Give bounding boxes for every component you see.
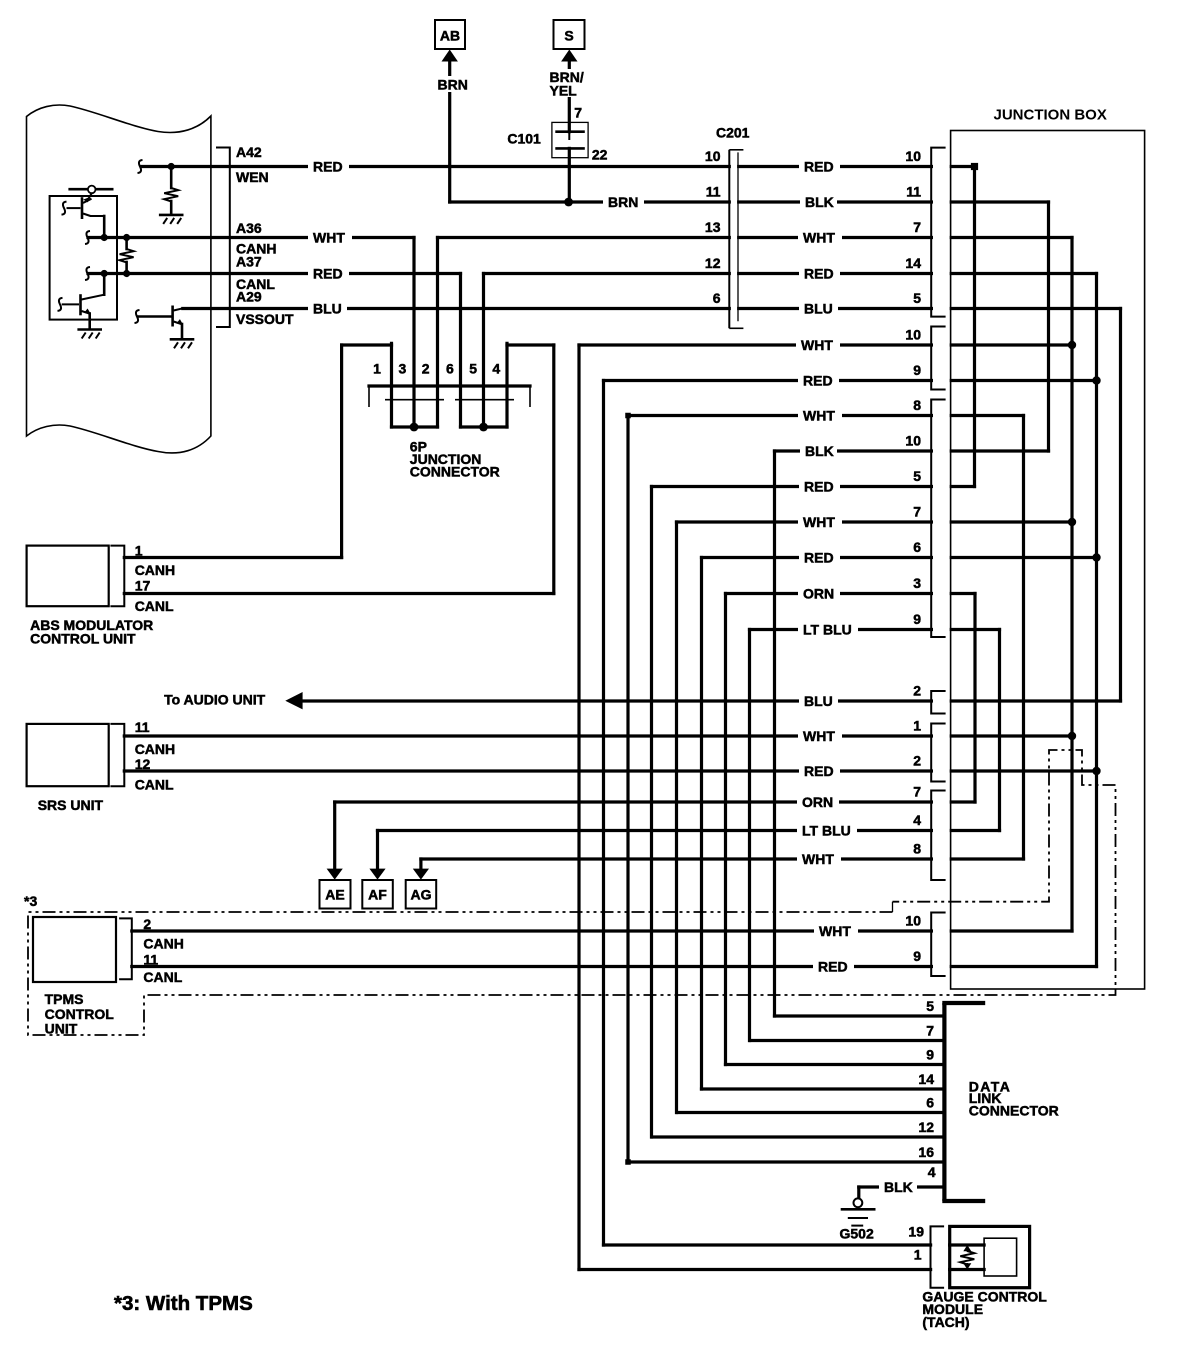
svg-text:11: 11 <box>706 184 721 200</box>
gauge internal resistor <box>963 1245 971 1251</box>
svg-text:RED: RED <box>804 550 834 566</box>
JB connector bracket group 4 <box>931 691 945 714</box>
vertical wire WHT JB7 to DLC6 <box>675 522 678 1113</box>
svg-text:UNIT: UNIT <box>45 1020 78 1036</box>
wire BLK y451.0 to JB pin 10 <box>775 449 1049 452</box>
svg-text:5: 5 <box>913 468 921 484</box>
svg-text:3: 3 <box>913 575 921 591</box>
svg-text:RED: RED <box>313 159 343 175</box>
svg-text:ORN: ORN <box>803 586 834 602</box>
svg-text:*3: *3 <box>24 893 37 909</box>
svg-text:CANL: CANL <box>135 598 174 614</box>
svg-text:14: 14 <box>918 1071 934 1087</box>
svg-text:8: 8 <box>913 397 921 413</box>
wire color label BRN (left) y202 <box>603 194 644 210</box>
wire A29 VSSOUT BLU to C201 pin6 to JB pin5 <box>183 307 1121 310</box>
wire A37 CANL RED segment to 6P pin6 <box>88 272 461 275</box>
vertical wire BLK JB10 to DLC5 <box>773 451 776 1016</box>
wire to DATA LINK CONNECTOR pin 14 <box>702 1087 945 1090</box>
svg-text:WEN: WEN <box>236 169 269 185</box>
svg-text:WHT: WHT <box>802 851 834 867</box>
wire color label WHT y345.0 <box>796 337 840 353</box>
connector box AF <box>362 880 393 909</box>
svg-text:AB: AB <box>440 28 460 44</box>
wire color label LT BLU y830.5 <box>797 823 857 839</box>
svg-text:CONNECTOR: CONNECTOR <box>410 464 500 480</box>
wire to DATA LINK CONNECTOR pin 6 <box>677 1111 944 1114</box>
wire color label RED y166.5 <box>799 159 840 175</box>
ground G502 <box>854 1198 863 1207</box>
wire color label BLK y202.0 <box>800 194 837 210</box>
JB connector bracket group 5 <box>931 724 945 782</box>
svg-text:CANH: CANH <box>135 741 175 757</box>
svg-text:G502: G502 <box>840 1226 874 1242</box>
wire RED y771.0 to JB pin 2 <box>124 769 1096 772</box>
svg-text:SRS UNIT: SRS UNIT <box>38 797 104 813</box>
wire WHT y736.0 to JB pin 1 <box>124 734 1072 737</box>
svg-text:S: S <box>564 28 573 44</box>
connector box AG <box>406 880 437 909</box>
wire color label WHT (left) y237.5 <box>308 230 352 246</box>
svg-text:C101: C101 <box>507 131 541 147</box>
svg-text:A42: A42 <box>236 144 262 160</box>
wire to DATA LINK CONNECTOR pin 7 <box>750 1039 944 1042</box>
svg-text:9: 9 <box>913 611 921 627</box>
wire ABS CANL pin17 <box>124 592 554 595</box>
wire RED 6P pin5 to C201 pin12 to JB pin14 <box>484 272 1097 275</box>
svg-text:VSSOUT: VSSOUT <box>236 311 294 327</box>
svg-text:12: 12 <box>705 255 721 271</box>
svg-text:WHT: WHT <box>803 728 835 744</box>
wire RED y486.5 to JB pin 5 <box>652 485 975 488</box>
DATA LINK CONNECTOR <box>942 1003 946 1201</box>
wire to gauge control module pin 1 <box>579 1268 984 1271</box>
svg-text:5: 5 <box>926 998 934 1014</box>
svg-text:A37: A37 <box>236 254 262 270</box>
wire RED y966.5 to JB pin 9 <box>132 965 1097 968</box>
JB bus WHT pin7 chain <box>1070 238 1073 932</box>
svg-text:22: 22 <box>592 147 608 163</box>
wire BLU y701.0 to JB pin 2 <box>303 699 1121 702</box>
wire A42 WEN RED (C201 pin10 to JB pin10) <box>142 165 975 168</box>
svg-text:CONTROL UNIT: CONTROL UNIT <box>30 630 136 646</box>
vertical wire WHT JB10 to gauge pin1 <box>577 345 580 1270</box>
svg-text:CONTROL: CONTROL <box>45 1006 115 1022</box>
wire ABS CANH staple <box>342 343 392 346</box>
wire to gauge control module pin 19 <box>604 1243 985 1246</box>
svg-text:RED: RED <box>804 479 834 495</box>
svg-text:YEL: YEL <box>550 83 578 99</box>
svg-text:13: 13 <box>705 219 721 235</box>
svg-text:RED: RED <box>313 266 343 282</box>
svg-text:ORN: ORN <box>802 794 833 810</box>
svg-text:CANH: CANH <box>143 936 183 952</box>
internal IC rectangle <box>50 196 117 320</box>
svg-text:AG: AG <box>411 887 432 903</box>
svg-text:2: 2 <box>913 753 921 769</box>
svg-text:BLK: BLK <box>884 1179 913 1195</box>
wire to DATA LINK CONNECTOR pin 16 <box>628 1160 944 1163</box>
wire WHT y415.5 to JB pin 8 <box>628 414 1024 417</box>
JB connector bracket group 7 <box>931 913 945 977</box>
transistor Q1 <box>62 202 67 215</box>
svg-text:C201: C201 <box>716 124 750 140</box>
vertical wire WHT JB8 to DLC16 <box>626 416 629 1163</box>
wire color label ORN y593.5 <box>798 586 840 602</box>
svg-text:16: 16 <box>918 1144 934 1160</box>
svg-text:JUNCTION BOX: JUNCTION BOX <box>994 107 1107 124</box>
resistor between CANH CANL <box>125 238 128 250</box>
svg-text:4: 4 <box>928 1164 936 1180</box>
wire color label RED (left) y273.5 <box>308 266 349 282</box>
label BRN under AB <box>436 76 466 92</box>
svg-text:19: 19 <box>908 1224 924 1240</box>
svg-text:CANL: CANL <box>135 777 174 793</box>
svg-text:6: 6 <box>913 539 921 555</box>
svg-text:12: 12 <box>918 1119 934 1135</box>
svg-text:7: 7 <box>926 1023 934 1039</box>
wire color label RED y273.5 <box>799 266 840 282</box>
svg-text:To AUDIO UNIT: To AUDIO UNIT <box>164 692 266 708</box>
svg-text:(TACH): (TACH) <box>922 1314 969 1330</box>
svg-text:1: 1 <box>373 360 381 376</box>
6P connector bar <box>369 384 530 387</box>
transistor Q3 <box>135 310 140 323</box>
svg-text:RED: RED <box>804 159 834 175</box>
ABS modulator control unit <box>27 546 109 607</box>
JB bus ORN pin3-pin7 <box>973 594 976 803</box>
wire BRN/BLK (AB to C101 22 to C201 pin11 to JB pin11) <box>450 200 1049 203</box>
TPMS control unit <box>33 917 116 982</box>
svg-text:A36: A36 <box>236 220 262 236</box>
svg-text:LT BLU: LT BLU <box>802 823 851 839</box>
svg-text:7: 7 <box>913 784 921 800</box>
svg-text:BLK: BLK <box>805 443 834 459</box>
JB bus LT BLU pin9-pin4 <box>998 630 1001 831</box>
svg-text:9: 9 <box>913 948 921 964</box>
svg-text:WHT: WHT <box>803 230 835 246</box>
SRS unit <box>27 724 109 786</box>
svg-text:10: 10 <box>905 148 921 164</box>
svg-text:RED: RED <box>804 763 834 779</box>
svg-text:BLU: BLU <box>313 301 342 317</box>
transistor Q2 <box>58 298 63 311</box>
svg-text:9: 9 <box>926 1047 934 1063</box>
svg-text:7: 7 <box>913 504 921 520</box>
svg-text:6: 6 <box>713 290 721 306</box>
svg-text:2: 2 <box>913 683 921 699</box>
wire ABS CANH pin1 <box>124 556 341 559</box>
svg-text:RED: RED <box>804 266 834 282</box>
vertical wire RED JB9 to gauge pin19 <box>602 381 605 1246</box>
JB connector bracket group 3 <box>931 400 945 638</box>
wire WHT y522.0 to JB pin 7 <box>677 520 1073 523</box>
wire WHT y931.0 to JB pin 10 <box>132 929 1072 932</box>
svg-text:4: 4 <box>492 360 500 376</box>
wire color label RED (left) y166.5 <box>308 159 349 175</box>
svg-text:7: 7 <box>574 105 582 121</box>
connector box S <box>554 20 585 49</box>
wire to DATA LINK CONNECTOR pin 9 <box>726 1063 945 1066</box>
wire WHT 6P pin2 to C201 pin13 to JB pin7 <box>438 236 1073 239</box>
svg-text:WHT: WHT <box>819 923 851 939</box>
wire RED y380.5 to JB pin 9 <box>604 379 1097 382</box>
svg-text:11: 11 <box>143 952 158 968</box>
JB bus RED pin10-pin5 <box>973 167 976 487</box>
wire color label RED y966.5 <box>813 959 854 975</box>
wire drop to AG <box>419 859 422 871</box>
connector box AB <box>435 20 465 49</box>
svg-text:WHT: WHT <box>801 337 833 353</box>
wire color label WHT y415.5 <box>798 408 842 424</box>
vertical wire RED JB6 to DLC14 <box>700 558 703 1090</box>
wire color label BLU (left) y308.5 <box>308 301 347 317</box>
svg-text:6: 6 <box>446 360 454 376</box>
svg-text:BLK: BLK <box>805 194 834 210</box>
svg-text:BRN: BRN <box>438 77 468 93</box>
svg-text:10: 10 <box>905 433 921 449</box>
svg-text:WHT: WHT <box>803 514 835 530</box>
JB bus WHT pin8-pin8 <box>1022 416 1025 860</box>
white channel of connector C201 (wires break) <box>731 147 737 325</box>
svg-text:RED: RED <box>818 959 848 975</box>
svg-text:17: 17 <box>135 578 151 594</box>
wire drop to AE <box>333 802 336 871</box>
wire color label BLK y451.0 <box>800 443 837 459</box>
arrow up to AB <box>442 50 458 62</box>
white channel at gauge module bracket (wires break) <box>932 1232 948 1284</box>
WEN pulldown resistor and ground <box>138 160 143 173</box>
supply rail and terminal circle <box>70 188 113 191</box>
svg-text:AE: AE <box>325 887 344 903</box>
svg-text:WHT: WHT <box>313 230 345 246</box>
svg-text:BLU: BLU <box>804 301 833 317</box>
wire ABS CANL staple <box>507 343 554 346</box>
svg-text:11: 11 <box>906 184 921 200</box>
svg-text:10: 10 <box>905 913 921 929</box>
label BRN/YEL under S <box>548 69 588 97</box>
CAN squiggles <box>85 231 90 244</box>
wire RED y557.5 to JB pin 6 <box>702 556 1097 559</box>
svg-text:BRN: BRN <box>608 194 638 210</box>
svg-text:AF: AF <box>368 887 387 903</box>
wire ORN y802.0 to JB pin 7 <box>335 800 975 803</box>
JB connector bracket group 6 <box>931 791 945 881</box>
control module torn outline <box>27 105 211 453</box>
svg-text:CANH: CANH <box>135 562 175 578</box>
svg-text:6: 6 <box>926 1095 934 1111</box>
svg-text:RED: RED <box>803 373 833 389</box>
connector box AE <box>320 880 351 909</box>
6P pin wires <box>390 343 393 427</box>
svg-text:3: 3 <box>399 360 407 376</box>
svg-text:2: 2 <box>143 916 151 932</box>
svg-text:11: 11 <box>135 719 150 735</box>
svg-text:14: 14 <box>905 255 921 271</box>
svg-text:A29: A29 <box>236 289 262 305</box>
JB connector bracket group 1 <box>931 148 945 317</box>
svg-text:8: 8 <box>913 841 921 857</box>
svg-text:*3: With TPMS: *3: With TPMS <box>114 1292 253 1315</box>
JB bus BLU pin5-pin2 <box>1119 309 1122 702</box>
svg-text:7: 7 <box>913 219 921 235</box>
wire WHT y859.0 to JB pin 8 <box>421 857 1024 860</box>
svg-text:12: 12 <box>135 756 151 772</box>
gauge control module bracket <box>931 1226 945 1287</box>
JB connector bracket group 2 <box>931 327 945 390</box>
wire color label WHT y522.0 <box>798 514 842 530</box>
svg-text:TPMS: TPMS <box>45 991 84 1007</box>
wire A36 CANH WHT segment to 6P pin3 <box>88 236 414 239</box>
svg-text:BLU: BLU <box>804 693 833 709</box>
vertical wire RED JB5 to DLC12 <box>650 487 653 1138</box>
svg-text:CANL: CANL <box>143 969 182 985</box>
svg-text:1: 1 <box>914 1247 922 1263</box>
wire ORN y593.5 to JB pin 3 <box>726 592 976 595</box>
svg-text:WHT: WHT <box>803 408 835 424</box>
arrow up to S <box>561 50 577 62</box>
wire color label RED y486.5 <box>799 479 840 495</box>
svg-text:1: 1 <box>135 543 143 559</box>
svg-text:2: 2 <box>422 360 430 376</box>
svg-text:9: 9 <box>913 362 921 378</box>
wire color label BLU y701.0 <box>799 693 838 709</box>
svg-text:5: 5 <box>469 360 477 376</box>
wire LT BLU y830.5 to JB pin 4 <box>378 829 1000 832</box>
wire color label WHT y237.5 <box>798 230 842 246</box>
wire color label BLU y308.5 <box>799 301 838 317</box>
JB bus BLK pin11-pin10 <box>1047 202 1050 451</box>
wire color label ORN y802.0 <box>797 794 839 810</box>
wire to DATA LINK CONNECTOR pin 12 <box>652 1135 944 1138</box>
wire drop to AF <box>376 831 379 872</box>
gauge control module box <box>950 1226 1030 1287</box>
svg-text:CONNECTOR: CONNECTOR <box>969 1103 1059 1119</box>
svg-text:10: 10 <box>705 148 721 164</box>
wire color label WHT y736.0 <box>798 728 842 744</box>
wire color label RED y557.5 <box>799 550 840 566</box>
wire color label WHT y931.0 <box>814 923 858 939</box>
svg-text:5: 5 <box>913 290 921 306</box>
wire LT BLU y629.5 to JB pin 9 <box>750 628 1000 631</box>
module connector bracket <box>216 148 230 328</box>
wire color label RED y771.0 <box>799 763 840 779</box>
white channel between JB brackets and JB edge (wires break) <box>933 140 950 985</box>
svg-text:LT BLU: LT BLU <box>803 622 852 638</box>
vertical wire LT BLU JB9 to DLC7 <box>748 630 751 1041</box>
wire WHT y345.0 to JB pin 10 <box>579 343 1072 346</box>
wire BLK to DLC pin 4 <box>859 1185 945 1188</box>
junction dots <box>971 163 978 170</box>
svg-text:10: 10 <box>905 327 921 343</box>
wire color label WHT y859.0 <box>797 851 841 867</box>
wire color label LT BLU y629.5 <box>798 622 858 638</box>
wire color label RED y380.5 <box>798 373 839 389</box>
svg-text:1: 1 <box>913 718 921 734</box>
6P internal bus bars <box>392 425 438 428</box>
wire to DATA LINK CONNECTOR pin 5 <box>775 1014 945 1017</box>
vertical wire ORN JB3 to DLC9 <box>724 594 727 1065</box>
TPMS option dash-dot boundary <box>28 750 1116 1035</box>
JB bus RED pin14 chain <box>1095 274 1098 967</box>
svg-text:4: 4 <box>913 812 921 828</box>
